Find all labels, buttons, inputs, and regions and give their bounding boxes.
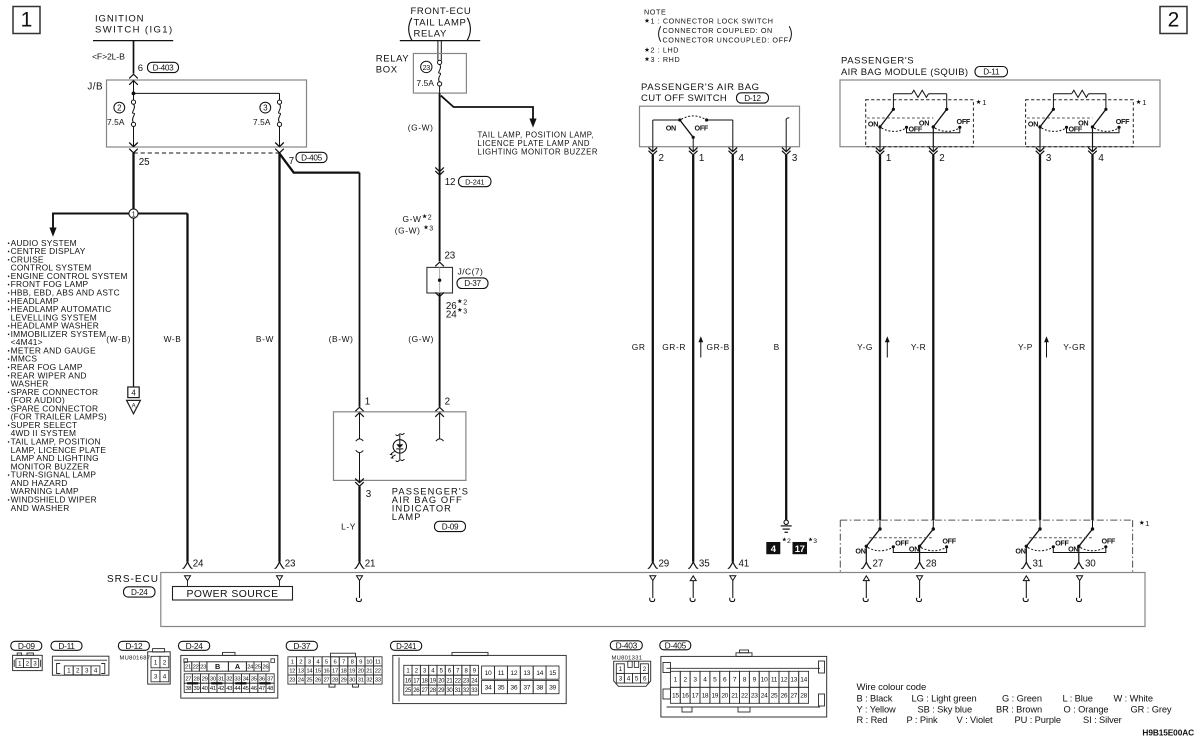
- svg-text:2: 2: [117, 104, 122, 113]
- svg-text:22: 22: [193, 665, 199, 671]
- svg-text:40: 40: [202, 686, 209, 692]
- svg-text:A: A: [132, 403, 136, 409]
- svg-text:36: 36: [259, 677, 266, 683]
- svg-text:A: A: [235, 662, 241, 671]
- svg-text:18: 18: [341, 669, 348, 675]
- svg-text:23: 23: [463, 678, 470, 684]
- svg-text:19: 19: [349, 669, 355, 675]
- svg-text:NOTE: NOTE: [644, 7, 666, 16]
- svg-text:Y : Yellow: Y : Yellow: [857, 704, 897, 714]
- svg-text:22: 22: [455, 678, 462, 684]
- svg-text:20: 20: [438, 678, 445, 684]
- svg-text:32: 32: [366, 678, 372, 684]
- svg-text:R : Red: R : Red: [857, 715, 888, 725]
- svg-text:12: 12: [781, 677, 788, 684]
- svg-text:PASSENGER'S AIR BAG: PASSENGER'S AIR BAG: [641, 82, 760, 93]
- svg-text:30: 30: [446, 688, 453, 694]
- svg-text:2: 2: [463, 300, 467, 307]
- svg-text:24: 24: [193, 559, 204, 570]
- svg-text:D-09: D-09: [18, 641, 36, 651]
- svg-text:SI : Silver: SI : Silver: [1083, 715, 1122, 725]
- svg-text:MU801687: MU801687: [120, 655, 151, 661]
- svg-text:Wire colour code: Wire colour code: [857, 682, 927, 693]
- svg-text:14: 14: [306, 669, 313, 675]
- svg-text:10: 10: [485, 670, 492, 677]
- svg-text:29: 29: [202, 677, 208, 683]
- svg-text:35: 35: [699, 559, 710, 570]
- svg-text:G : Green: G : Green: [1002, 694, 1042, 704]
- svg-text:2: 2: [659, 153, 664, 164]
- svg-text:24: 24: [761, 693, 768, 700]
- svg-text:11: 11: [771, 677, 778, 684]
- svg-text:7: 7: [342, 659, 345, 665]
- svg-text:34: 34: [243, 677, 250, 683]
- svg-text:SB : Sky blue: SB : Sky blue: [918, 704, 973, 714]
- svg-text:27: 27: [873, 559, 884, 570]
- svg-text:42: 42: [218, 686, 224, 692]
- svg-text:GR : Grey: GR : Grey: [1131, 704, 1172, 714]
- svg-text:LAMP: LAMP: [392, 512, 422, 522]
- svg-text:2: 2: [445, 396, 450, 407]
- svg-text:3: 3: [366, 489, 372, 500]
- svg-text:27: 27: [323, 678, 329, 684]
- svg-text:13: 13: [790, 677, 797, 684]
- svg-text:(B-W): (B-W): [329, 334, 354, 344]
- svg-text:20: 20: [358, 669, 365, 675]
- svg-text:17: 17: [413, 678, 420, 684]
- svg-text:33: 33: [234, 677, 241, 683]
- svg-text:B-W: B-W: [256, 334, 274, 344]
- svg-text:15: 15: [549, 670, 556, 677]
- svg-text:21: 21: [366, 669, 372, 675]
- svg-text:22: 22: [375, 669, 381, 675]
- svg-text:(G-W): (G-W): [408, 334, 434, 344]
- svg-text:2: 2: [787, 538, 791, 545]
- svg-text:10: 10: [761, 677, 768, 684]
- svg-text:44: 44: [234, 686, 241, 692]
- svg-text:MU801331: MU801331: [612, 656, 643, 662]
- svg-text:1: 1: [982, 98, 986, 107]
- svg-text:D-241: D-241: [465, 178, 484, 187]
- svg-text:23: 23: [423, 63, 431, 72]
- svg-text:1: 1: [291, 659, 294, 665]
- svg-text:G-W: G-W: [402, 214, 421, 224]
- svg-text:12: 12: [445, 177, 456, 188]
- svg-text:28: 28: [800, 693, 807, 700]
- svg-text:16: 16: [682, 693, 689, 700]
- svg-text:24: 24: [471, 678, 478, 684]
- svg-text:17: 17: [332, 669, 338, 675]
- svg-text:1: 1: [1145, 519, 1149, 528]
- svg-text:26: 26: [315, 678, 322, 684]
- svg-text:OFF: OFF: [695, 124, 709, 133]
- svg-text:30: 30: [1085, 559, 1096, 570]
- svg-text:Y-R: Y-R: [911, 342, 926, 352]
- svg-text:D-403: D-403: [616, 640, 638, 650]
- svg-text:25: 25: [255, 665, 262, 671]
- svg-text:D-37: D-37: [464, 279, 481, 288]
- svg-text:37: 37: [267, 677, 273, 683]
- svg-text:AND WASHER: AND WASHER: [11, 503, 70, 513]
- svg-text:ON: ON: [855, 547, 865, 556]
- svg-text:3: 3: [429, 226, 433, 233]
- svg-text:ON: ON: [1015, 547, 1025, 556]
- svg-text:Y-P: Y-P: [1018, 342, 1033, 352]
- svg-text:38: 38: [536, 685, 543, 692]
- svg-text:47: 47: [259, 686, 265, 692]
- svg-text:ON: ON: [1078, 118, 1088, 127]
- svg-text:11: 11: [375, 659, 381, 665]
- svg-text:D-241: D-241: [396, 642, 416, 651]
- svg-text:1: 1: [365, 396, 370, 407]
- svg-text:3: 3: [813, 538, 817, 545]
- svg-text:<F>2L-B: <F>2L-B: [92, 52, 125, 62]
- svg-text:24: 24: [446, 310, 457, 321]
- svg-text:D-12: D-12: [125, 641, 143, 651]
- svg-text:(G-W): (G-W): [395, 226, 421, 236]
- svg-text:38: 38: [185, 686, 192, 692]
- svg-text:18: 18: [421, 678, 428, 684]
- svg-text:41: 41: [210, 686, 216, 692]
- svg-text:21: 21: [185, 665, 191, 671]
- svg-text:28: 28: [430, 688, 437, 694]
- svg-text:FRONT-ECU: FRONT-ECU: [411, 6, 472, 17]
- svg-text:23: 23: [200, 665, 207, 671]
- svg-text:39: 39: [193, 686, 199, 692]
- svg-text:16: 16: [405, 678, 412, 684]
- svg-text:28: 28: [332, 678, 339, 684]
- svg-text:GR: GR: [632, 342, 646, 352]
- svg-text:SWITCH (IG1): SWITCH (IG1): [95, 25, 174, 36]
- svg-text:CUT OFF SWITCH: CUT OFF SWITCH: [641, 93, 727, 104]
- svg-text:B : Black: B : Black: [857, 694, 893, 704]
- svg-text:26: 26: [262, 665, 269, 671]
- svg-text:25: 25: [771, 693, 778, 700]
- svg-text:1: 1: [1142, 98, 1146, 107]
- svg-text:OFF: OFF: [895, 538, 909, 547]
- svg-text:14: 14: [536, 670, 543, 677]
- svg-text:25: 25: [405, 688, 412, 694]
- svg-text:26: 26: [413, 688, 420, 694]
- svg-text:7.5A: 7.5A: [253, 117, 271, 127]
- svg-text:Y-GR: Y-GR: [1063, 342, 1086, 352]
- svg-text:36: 36: [510, 685, 517, 692]
- svg-text:19: 19: [430, 678, 437, 684]
- svg-text:30: 30: [349, 678, 356, 684]
- svg-text:46: 46: [251, 686, 258, 692]
- svg-text:21: 21: [365, 559, 376, 570]
- svg-text:D-11: D-11: [983, 68, 1000, 77]
- svg-text:2: 2: [1168, 9, 1180, 32]
- svg-text:(W-B): (W-B): [106, 334, 131, 344]
- svg-text:4: 4: [771, 544, 777, 555]
- svg-text:7.5A: 7.5A: [107, 117, 125, 127]
- svg-text:J/C(7): J/C(7): [458, 266, 484, 276]
- svg-text:26: 26: [781, 693, 788, 700]
- svg-text:P : Pink: P : Pink: [907, 715, 939, 725]
- svg-text:OFF: OFF: [1102, 537, 1116, 546]
- svg-text:SRS-ECU: SRS-ECU: [107, 574, 159, 585]
- svg-text:PU : Purple: PU : Purple: [1015, 715, 1061, 725]
- svg-text:BOX: BOX: [376, 64, 398, 75]
- svg-text:31: 31: [1033, 559, 1044, 570]
- svg-text:D-403: D-403: [153, 63, 175, 72]
- svg-text:21: 21: [731, 693, 738, 700]
- svg-text:23: 23: [445, 251, 456, 262]
- svg-text:12: 12: [289, 669, 295, 675]
- svg-text:13: 13: [298, 669, 305, 675]
- svg-text:23: 23: [285, 559, 296, 570]
- svg-text:27: 27: [185, 677, 191, 683]
- svg-text:29: 29: [341, 678, 347, 684]
- svg-text:W-B: W-B: [164, 334, 182, 344]
- svg-text:32: 32: [226, 677, 232, 683]
- svg-text:41: 41: [739, 559, 750, 570]
- svg-text:Y-G: Y-G: [857, 342, 873, 352]
- svg-text:1: 1: [699, 153, 704, 164]
- svg-text:13: 13: [523, 670, 530, 677]
- svg-text:3 : RHD: 3 : RHD: [651, 55, 681, 64]
- svg-text:21: 21: [446, 678, 453, 684]
- svg-text:D-405: D-405: [665, 640, 687, 650]
- svg-text:25: 25: [139, 157, 150, 168]
- svg-text:33: 33: [471, 688, 478, 694]
- svg-text:L-Y: L-Y: [341, 522, 356, 532]
- svg-text:43: 43: [226, 686, 233, 692]
- svg-text:35: 35: [498, 685, 505, 692]
- svg-text:23: 23: [289, 678, 296, 684]
- svg-text:2: 2: [939, 153, 944, 164]
- svg-text:PASSENGER'S: PASSENGER'S: [841, 55, 914, 66]
- svg-text:2: 2: [428, 215, 432, 222]
- svg-text:15: 15: [315, 669, 322, 675]
- svg-text:H9B15E00AC: H9B15E00AC: [1142, 727, 1194, 736]
- svg-text:CONNECTOR UNCOUPLED: OFF: CONNECTOR UNCOUPLED: OFF: [663, 35, 789, 44]
- svg-text:23: 23: [751, 693, 758, 700]
- svg-text:LG : Light green: LG : Light green: [912, 694, 977, 704]
- svg-text:29: 29: [438, 688, 445, 694]
- svg-text:32: 32: [463, 688, 470, 694]
- svg-text:GR-R: GR-R: [662, 342, 686, 352]
- svg-text:7.5A: 7.5A: [417, 78, 435, 88]
- svg-text:28: 28: [926, 559, 937, 570]
- svg-text:25: 25: [306, 678, 313, 684]
- svg-text:45: 45: [243, 686, 250, 692]
- svg-text:10: 10: [366, 659, 373, 665]
- svg-text:28: 28: [193, 677, 200, 683]
- svg-text:D-11: D-11: [58, 641, 75, 651]
- svg-text:2 : LHD: 2 : LHD: [651, 46, 680, 55]
- svg-text:D-09: D-09: [442, 522, 459, 531]
- svg-text:L : Blue: L : Blue: [1063, 694, 1093, 704]
- svg-text:D-24: D-24: [186, 641, 204, 651]
- svg-text:RELAY: RELAY: [376, 53, 410, 64]
- svg-text:OFF: OFF: [942, 537, 956, 546]
- svg-text:12: 12: [510, 670, 517, 677]
- svg-text:B: B: [215, 662, 220, 671]
- svg-text:3: 3: [263, 104, 268, 113]
- svg-text:20: 20: [721, 693, 728, 700]
- svg-text:35: 35: [251, 677, 258, 683]
- svg-text:2: 2: [299, 659, 302, 665]
- svg-text:19: 19: [711, 693, 718, 700]
- svg-text:B: B: [774, 342, 780, 352]
- svg-text:48: 48: [267, 686, 274, 692]
- svg-text:POWER SOURCE: POWER SOURCE: [187, 589, 279, 600]
- svg-text:D-37: D-37: [293, 641, 311, 651]
- svg-text:1: 1: [886, 153, 891, 164]
- svg-text:1: 1: [21, 9, 33, 32]
- svg-text:ON: ON: [868, 120, 878, 129]
- svg-text:OFF: OFF: [957, 117, 971, 126]
- svg-text:30: 30: [210, 677, 217, 683]
- svg-text:ON: ON: [1028, 120, 1038, 129]
- svg-text:4: 4: [1098, 153, 1104, 164]
- svg-text:33: 33: [375, 678, 382, 684]
- svg-text:ON: ON: [666, 124, 676, 133]
- svg-text:V : Violet: V : Violet: [957, 715, 994, 725]
- svg-text:BR : Brown: BR : Brown: [996, 704, 1042, 714]
- svg-text:O : Orange: O : Orange: [1064, 704, 1109, 714]
- svg-text:31: 31: [218, 677, 224, 683]
- svg-text:LIGHTING MONITOR BUZZER: LIGHTING MONITOR BUZZER: [478, 148, 599, 157]
- svg-text:3: 3: [1046, 153, 1052, 164]
- svg-text:1 : CONNECTOR LOCK SWITCH: 1 : CONNECTOR LOCK SWITCH: [651, 17, 774, 26]
- svg-text:CONNECTOR COUPLED: ON: CONNECTOR COUPLED: ON: [663, 26, 773, 35]
- svg-text:22: 22: [741, 693, 748, 700]
- svg-text:24: 24: [247, 665, 254, 671]
- svg-text:16: 16: [323, 669, 330, 675]
- svg-text:15: 15: [672, 693, 679, 700]
- svg-text:39: 39: [549, 685, 556, 692]
- svg-text:29: 29: [659, 559, 670, 570]
- svg-text:9: 9: [359, 659, 362, 665]
- svg-text:AIR BAG MODULE (SQUIB): AIR BAG MODULE (SQUIB): [841, 67, 968, 78]
- svg-text:17: 17: [692, 693, 699, 700]
- svg-text:11: 11: [498, 670, 505, 677]
- svg-text:OFF: OFF: [1116, 117, 1130, 126]
- svg-text:RELAY: RELAY: [414, 28, 448, 39]
- svg-text:34: 34: [485, 685, 492, 692]
- svg-text:1: 1: [132, 209, 136, 218]
- svg-text:W : White: W : White: [1114, 694, 1153, 704]
- svg-text:J/B: J/B: [87, 82, 103, 93]
- svg-text:(G-W): (G-W): [408, 123, 434, 133]
- svg-text:37: 37: [523, 685, 530, 692]
- svg-text:TAIL LAMP: TAIL LAMP: [414, 17, 467, 28]
- svg-text:D-12: D-12: [744, 94, 761, 103]
- svg-text:3: 3: [463, 308, 467, 315]
- svg-text:18: 18: [702, 693, 709, 700]
- svg-text:14: 14: [800, 677, 807, 684]
- svg-text:GR-B: GR-B: [706, 342, 729, 352]
- svg-text:27: 27: [790, 693, 797, 700]
- svg-text:31: 31: [358, 678, 364, 684]
- svg-text:D-405: D-405: [301, 153, 323, 162]
- svg-text:7: 7: [289, 156, 294, 167]
- svg-text:4: 4: [131, 389, 136, 398]
- svg-text:IGNITION: IGNITION: [95, 14, 144, 25]
- svg-text:6: 6: [138, 63, 143, 74]
- svg-text:3: 3: [792, 153, 798, 164]
- svg-text:ON: ON: [919, 118, 929, 127]
- svg-text:31: 31: [455, 688, 462, 694]
- svg-text:24: 24: [298, 678, 305, 684]
- svg-text:D-24: D-24: [131, 588, 148, 597]
- svg-text:17: 17: [795, 544, 805, 555]
- svg-text:27: 27: [421, 688, 428, 694]
- svg-text:4: 4: [739, 153, 745, 164]
